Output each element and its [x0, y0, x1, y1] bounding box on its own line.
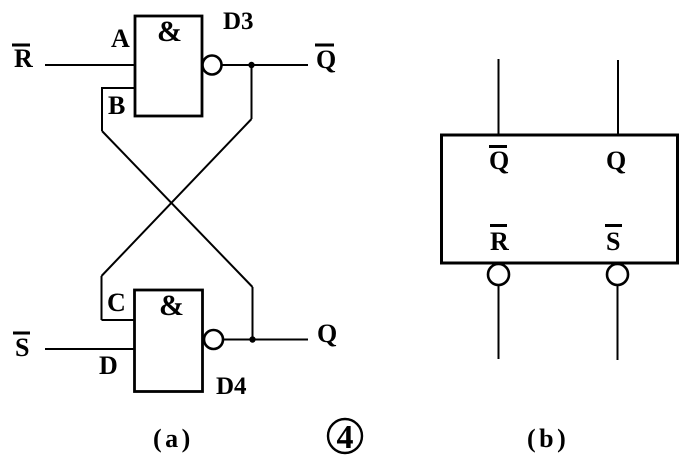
- svg-text:&: &: [159, 289, 184, 322]
- nand gate D4 body: [135, 290, 203, 392]
- input label R-bar: [12, 44, 33, 73]
- wire: top lead Q: [617, 60, 619, 135]
- bubble: R-bar inversion circle: [488, 264, 509, 285]
- svg-text:Q: Q: [316, 45, 336, 74]
- node: junction dot on Q line: [249, 336, 255, 342]
- svg-text:D4: D4: [216, 373, 247, 400]
- svg-text:R: R: [490, 227, 509, 256]
- svg-text:Q: Q: [606, 146, 626, 175]
- wire: cross diagonal from D4 output to B input: [102, 131, 253, 287]
- wire: into gate D4 pin C: [102, 319, 136, 321]
- svg-text:(b): (b): [527, 424, 569, 453]
- block symbol box (b): [442, 135, 678, 263]
- svg-text:&: &: [157, 15, 182, 48]
- port label R-bar: [490, 226, 509, 257]
- wire: bottom lead R-bar: [498, 285, 500, 359]
- svg-text:D: D: [99, 351, 118, 380]
- port label Q-bar: [489, 146, 509, 175]
- svg-text:Q: Q: [489, 146, 509, 175]
- svg-text:B: B: [108, 91, 125, 120]
- wire: vertical down to Q node: [252, 287, 254, 340]
- input label S-bar: [13, 333, 30, 362]
- output label Q-bar: [315, 45, 336, 74]
- svg-text:Q: Q: [317, 319, 337, 348]
- svg-text:R: R: [14, 44, 33, 73]
- circled number 4: [328, 419, 362, 456]
- nand gate D3 body: [135, 16, 202, 116]
- wire: R-bar input to gate D3 pin A: [45, 64, 135, 66]
- bubble: S-bar inversion circle: [607, 264, 628, 285]
- wire: pin B bent segment: [102, 88, 135, 131]
- svg-text:A: A: [111, 24, 130, 53]
- wire: D3 output to Q-bar: [222, 64, 309, 66]
- svg-text:S: S: [606, 227, 620, 256]
- wire: vertical to C level: [101, 276, 103, 320]
- wire: S-bar input to gate D4 pin D: [45, 348, 135, 350]
- svg-text:4: 4: [337, 419, 354, 456]
- svg-text:(a): (a): [153, 424, 194, 453]
- bubble: D3 output inversion circle: [203, 56, 222, 75]
- bubble: D4 output inversion circle: [204, 330, 223, 349]
- wire: cross diagonal from D3 output to C input: [102, 119, 252, 276]
- port label S-bar: [605, 226, 622, 257]
- node: junction dot on Q-bar line: [248, 62, 254, 68]
- svg-text:C: C: [107, 288, 126, 317]
- wire: bottom lead S-bar: [617, 285, 619, 360]
- wire: top lead Q-bar: [498, 59, 500, 135]
- svg-text:D3: D3: [223, 8, 254, 35]
- wire: D4 output to Q: [223, 339, 308, 341]
- svg-text:S: S: [15, 333, 29, 362]
- wire: Q-bar node down: [251, 65, 253, 119]
